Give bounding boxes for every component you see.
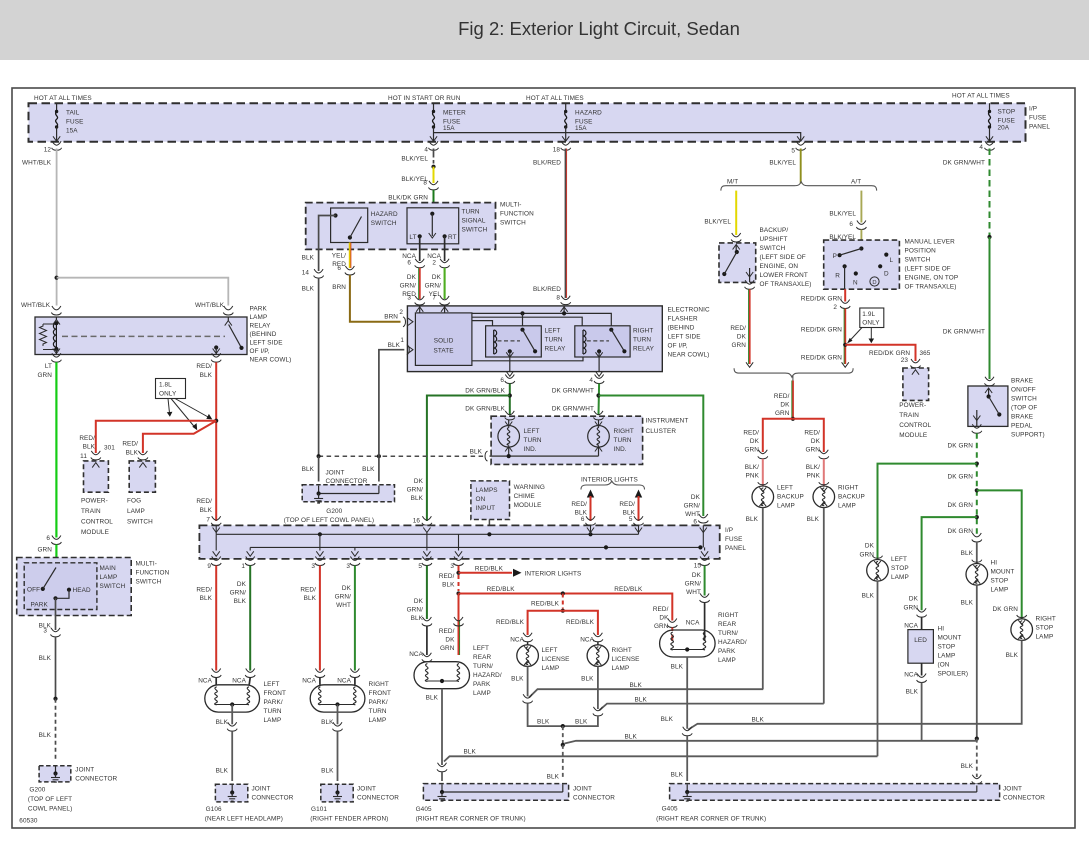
svg-text:LAMP: LAMP [127, 508, 145, 515]
wire BLK spoiler down to bus L4 [921, 683, 923, 741]
svg-text:BLK: BLK [961, 763, 974, 770]
wire BLK/YEL A/T branch [860, 191, 862, 223]
svg-text:DK: DK [445, 637, 455, 644]
SECTION: bottom lamps [196, 566, 1045, 823]
svg-text:BLK: BLK [906, 689, 919, 696]
svg-text:JOINT: JOINT [1003, 786, 1022, 793]
wire RED/DK GRN right backup branch [793, 419, 824, 452]
svg-text:BLK/YEL: BLK/YEL [401, 156, 428, 163]
wire DK GRN/BLK pin1 to left front lamp [249, 566, 251, 671]
svg-text:CONNECTOR: CONNECTOR [326, 478, 368, 485]
svg-text:RED/: RED/ [439, 573, 455, 580]
svg-text:BLK: BLK [635, 697, 648, 704]
svg-text:RED/: RED/ [653, 606, 669, 613]
svg-text:RIGHT: RIGHT [718, 612, 738, 619]
svg-text:RED/: RED/ [619, 501, 635, 508]
svg-text:G405: G405 [416, 806, 432, 813]
svg-text:LEFT: LEFT [473, 645, 489, 652]
svg-text:INTERIOR LIGHTS: INTERIOR LIGHTS [581, 477, 638, 484]
wire DK GRN/WHT branch to I/P pin6 [599, 396, 704, 517]
wire RT turn NCA [444, 236, 446, 261]
svg-text:TURN/: TURN/ [473, 663, 493, 670]
tail fuse [56, 103, 58, 112]
wire RED/BLK pin3 interior lights feed [458, 566, 460, 573]
svg-text:PARK: PARK [31, 602, 49, 609]
svg-text:4: 4 [589, 377, 593, 384]
svg-text:HAZARD: HAZARD [575, 110, 602, 117]
svg-text:REAR: REAR [718, 621, 736, 628]
LED hi mount stop lamp (spoiler) [908, 630, 934, 664]
svg-text:BLK/RED: BLK/RED [533, 286, 561, 293]
svg-text:LICENSE: LICENSE [612, 656, 640, 663]
svg-text:BLK: BLK [575, 719, 588, 726]
svg-text:MODULE: MODULE [899, 432, 927, 439]
svg-text:DK: DK [691, 494, 701, 501]
svg-text:RED/BLK: RED/BLK [614, 586, 643, 593]
svg-text:8: 8 [423, 180, 427, 187]
flasher left pin arrows 2,1 [408, 318, 413, 325]
svg-text:GRN/: GRN/ [335, 594, 352, 601]
svg-text:G200: G200 [29, 787, 45, 794]
svg-text:BACKUP: BACKUP [838, 494, 865, 501]
svg-text:BLK: BLK [630, 682, 643, 689]
svg-text:14: 14 [302, 270, 310, 277]
title bar [0, 0, 1089, 60]
svg-text:LAMP: LAMP [1036, 634, 1054, 641]
svg-text:GRN/: GRN/ [230, 590, 247, 597]
bottom exit arrows [213, 551, 220, 556]
svg-text:WHT: WHT [685, 511, 700, 518]
svg-text:BLK/DK GRN: BLK/DK GRN [388, 195, 428, 202]
svg-text:SOLID: SOLID [434, 338, 454, 345]
svg-text:OFF: OFF [27, 587, 40, 594]
svg-text:DK: DK [414, 478, 424, 485]
svg-text:LED: LED [914, 637, 927, 644]
svg-text:LOWER FRONT: LOWER FRONT [760, 272, 808, 279]
wire BLK left backup down [762, 508, 764, 690]
wire RED/BLK to PCM 301 [96, 421, 216, 453]
meter fuse [433, 103, 435, 112]
wire RED/BLK pin9 to left front lamp [215, 566, 217, 671]
BLK bus L1 from left license [529, 689, 763, 697]
svg-text:BLK: BLK [411, 615, 424, 622]
svg-text:LAMP: LAMP [473, 690, 491, 697]
left rear turn/hazard/park lamp [414, 662, 470, 689]
svg-text:NCA: NCA [904, 672, 918, 679]
wire BLK/PNK left [762, 459, 764, 487]
svg-text:POWER-: POWER- [81, 498, 108, 505]
svg-text:DK GRN: DK GRN [948, 443, 974, 450]
wire RED/DK GRN from upshift [749, 289, 751, 364]
svg-text:JOINT: JOINT [573, 786, 592, 793]
svg-text:RELAY: RELAY [250, 323, 272, 330]
multi-function switch box [306, 203, 496, 250]
svg-text:RED/: RED/ [300, 587, 316, 594]
svg-text:FRONT: FRONT [369, 690, 392, 697]
svg-text:(LEFT SIDE OF: (LEFT SIDE OF [905, 266, 951, 273]
flasher bottom pins 6,4 [506, 371, 513, 376]
svg-text:PNK: PNK [746, 473, 760, 480]
svg-text:BLK: BLK [362, 466, 375, 473]
svg-text:BLK: BLK [862, 593, 875, 600]
svg-text:RIGHT: RIGHT [614, 428, 634, 435]
internal bus meter fuse to pin 5 [434, 133, 801, 141]
park lamp relay [35, 317, 247, 355]
svg-text:RED/: RED/ [196, 498, 212, 505]
svg-text:BLK: BLK [39, 655, 52, 662]
svg-text:LAMP: LAMP [718, 657, 736, 664]
svg-text:G101: G101 [311, 806, 327, 813]
svg-text:RELAY: RELAY [633, 346, 655, 353]
wire DK GRN/BLK pin5 to left rear lamp [426, 566, 428, 620]
svg-text:MAIN: MAIN [100, 565, 117, 572]
svg-text:TURN: TURN [524, 437, 542, 444]
svg-text:CLUSTER: CLUSTER [646, 428, 677, 435]
svg-text:JOINT: JOINT [326, 470, 345, 477]
svg-text:Fig 2: Exterior Light Circuit,: Fig 2: Exterior Light Circuit, Sedan [458, 18, 740, 39]
svg-text:BACKUP/: BACKUP/ [760, 227, 789, 234]
svg-text:(TOP OF LEFT: (TOP OF LEFT [28, 796, 72, 803]
joint connector G200 (cowl top) [302, 485, 394, 502]
svg-text:OF TRANSAXLE): OF TRANSAXLE) [760, 281, 812, 288]
svg-text:DK: DK [750, 438, 760, 445]
powertrain control module (right) [903, 368, 929, 400]
svg-text:CONTROL: CONTROL [899, 422, 931, 429]
svg-text:NEAR COWL): NEAR COWL) [668, 352, 710, 359]
svg-text:N: N [853, 280, 858, 287]
wire YEL/RED hazard down [349, 243, 351, 269]
svg-text:DK GRN: DK GRN [948, 474, 974, 481]
svg-text:G200: G200 [326, 508, 342, 515]
svg-text:DK: DK [780, 402, 790, 409]
lamps on input box [471, 481, 510, 520]
svg-text:LAMP: LAMP [777, 503, 795, 510]
svg-text:LEFT: LEFT [891, 556, 907, 563]
SECTION: left side [17, 306, 292, 825]
svg-text:LAMP: LAMP [542, 665, 560, 672]
svg-text:8: 8 [556, 295, 560, 302]
svg-text:PARK: PARK [473, 681, 491, 688]
svg-text:GRN/: GRN/ [407, 487, 424, 494]
wire LT GRN relay to main lamp switch [55, 362, 57, 537]
BLK bus L5 [444, 756, 878, 761]
wire BLK/DK GRN [433, 190, 435, 208]
svg-text:LAMPS: LAMPS [476, 487, 498, 494]
svg-text:FUSE: FUSE [725, 536, 742, 543]
svg-text:GRN: GRN [805, 447, 820, 454]
svg-text:RIGHT: RIGHT [1036, 616, 1056, 623]
svg-text:(ON: (ON [938, 662, 950, 669]
svg-text:FOG: FOG [127, 498, 141, 505]
svg-text:DK GRN/BLK: DK GRN/BLK [465, 406, 505, 413]
svg-text:BLK: BLK [304, 595, 317, 602]
svg-text:BRN: BRN [332, 284, 346, 291]
SECTION: right top [704, 191, 958, 704]
svg-text:CHIME: CHIME [514, 493, 535, 500]
svg-text:ELECTRONIC: ELECTRONIC [668, 307, 710, 314]
svg-text:HEAD: HEAD [73, 587, 91, 594]
svg-text:DK GRN/WHT: DK GRN/WHT [552, 406, 594, 413]
svg-text:GRN: GRN [859, 552, 874, 559]
svg-text:GRN: GRN [37, 372, 52, 379]
wire BLK hi mount stop lamp body [976, 542, 978, 564]
svg-text:BLK/: BLK/ [806, 464, 820, 471]
svg-text:LAMP: LAMP [891, 574, 909, 581]
svg-text:OF TRANSAXLE): OF TRANSAXLE) [905, 284, 957, 291]
svg-text:LAMP: LAMP [100, 574, 118, 581]
relay switch [225, 321, 232, 326]
svg-text:ENGINE, ON TOP: ENGINE, ON TOP [905, 275, 959, 282]
svg-text:LEFT: LEFT [524, 428, 540, 435]
svg-text:WHT: WHT [686, 589, 701, 596]
svg-text:BLK/YEL: BLK/YEL [829, 211, 856, 218]
svg-text:RED/DK GRN: RED/DK GRN [869, 350, 910, 357]
svg-text:GRN: GRN [654, 623, 669, 630]
svg-text:POWER-: POWER- [899, 402, 926, 409]
svg-text:DK GRN/WHT: DK GRN/WHT [943, 329, 985, 336]
svg-text:RED/: RED/ [439, 628, 455, 635]
svg-text:BLK/YEL: BLK/YEL [769, 160, 796, 167]
svg-text:STATE: STATE [434, 348, 454, 355]
svg-text:GRN: GRN [440, 645, 455, 652]
I/P fuse panel (lower bus) [199, 525, 719, 559]
svg-text:GRN: GRN [731, 342, 746, 349]
svg-text:M/T: M/T [727, 179, 738, 186]
svg-text:RED/: RED/ [196, 587, 212, 594]
svg-text:CONNECTOR: CONNECTOR [1003, 795, 1045, 802]
svg-text:NCA: NCA [580, 637, 594, 644]
wire DK GRN branch to spoiler LED [922, 517, 977, 610]
wire DK GRN branch to right stop lamp [977, 490, 1022, 619]
svg-text:D: D [884, 271, 889, 278]
left license lamp [517, 645, 539, 667]
wire RED/BLK license drop [562, 594, 564, 609]
svg-text:BLK: BLK [216, 719, 229, 726]
svg-text:4: 4 [979, 144, 983, 151]
backup/upshift switch [719, 243, 756, 283]
svg-text:HOT AT ALL TIMES: HOT AT ALL TIMES [526, 95, 584, 102]
svg-text:6: 6 [337, 265, 341, 272]
svg-text:BLK: BLK [126, 450, 139, 457]
svg-text:BLK: BLK [752, 717, 765, 724]
right rear turn/hazard/park lamp [660, 630, 716, 657]
svg-text:RED/DK GRN: RED/DK GRN [801, 327, 842, 334]
svg-text:DK GRN/WHT: DK GRN/WHT [943, 160, 985, 167]
svg-text:D: D [872, 280, 876, 286]
svg-text:BLK/: BLK/ [745, 464, 759, 471]
svg-text:DK: DK [407, 274, 417, 281]
svg-text:BLK: BLK [200, 595, 213, 602]
svg-text:IND.: IND. [614, 446, 627, 453]
svg-text:BLK: BLK [746, 516, 759, 523]
svg-text:15A: 15A [575, 125, 587, 132]
svg-text:2: 2 [833, 304, 837, 311]
svg-text:R: R [835, 273, 840, 280]
svg-text:BRAKE: BRAKE [1011, 378, 1033, 385]
svg-text:LT: LT [45, 363, 52, 370]
svg-text:I/P: I/P [725, 527, 733, 534]
hi mount stop lamp [972, 560, 982, 563]
wire RED/DK GRN left backup branch [763, 419, 793, 452]
svg-text:(NEAR LEFT HEADLAMP): (NEAR LEFT HEADLAMP) [205, 816, 283, 823]
1.9L only box [860, 308, 884, 328]
turn signal switch [407, 208, 459, 244]
svg-text:FUNCTION: FUNCTION [136, 570, 170, 577]
svg-text:METER: METER [443, 110, 466, 117]
cluster ground bus [490, 455, 599, 457]
internal bus lines [216, 533, 638, 535]
wire RED/DK GRN merged [792, 381, 794, 419]
svg-text:A/T: A/T [851, 179, 861, 186]
svg-text:MOUNT: MOUNT [991, 569, 1015, 576]
merge brace to backup lamps [734, 368, 853, 377]
svg-text:MOUNT: MOUNT [938, 635, 962, 642]
svg-text:DK: DK [659, 615, 669, 622]
svg-text:BLK: BLK [321, 719, 334, 726]
svg-text:TRAIN: TRAIN [81, 508, 101, 515]
wire BLK left stop down to bus [877, 581, 879, 756]
svg-text:LEFT: LEFT [542, 647, 558, 654]
svg-text:G405: G405 [662, 806, 678, 813]
svg-text:DK: DK [865, 543, 875, 550]
svg-text:LAMP: LAMP [991, 587, 1009, 594]
svg-text:TURN: TURN [264, 708, 282, 715]
svg-text:FLASHER: FLASHER [668, 316, 698, 323]
main lamp switch outer box [17, 558, 132, 616]
brace M/T A/T [721, 182, 877, 191]
svg-text:PARK/: PARK/ [369, 699, 388, 706]
hazard fuse [565, 103, 567, 112]
svg-text:SPOILER): SPOILER) [938, 671, 969, 678]
svg-text:RELAY: RELAY [545, 346, 567, 353]
svg-text:RED/: RED/ [571, 501, 587, 508]
svg-text:6: 6 [849, 221, 853, 228]
svg-text:OF I/P,: OF I/P, [668, 343, 688, 350]
svg-text:1.8L: 1.8L [159, 382, 172, 389]
svg-text:BRAKE: BRAKE [1011, 414, 1033, 421]
svg-text:BLK: BLK [234, 598, 247, 605]
wire BLK/YEL to M/T A/T brace [800, 149, 802, 184]
svg-text:SWITCH: SWITCH [500, 220, 526, 227]
svg-text:12: 12 [44, 147, 52, 154]
right backup lamp [819, 482, 829, 485]
wire WHT/BLK branch to relay right [57, 278, 229, 306]
right front park/turn lamp [310, 685, 365, 712]
svg-text:DK: DK [737, 334, 747, 341]
svg-text:SWITCH: SWITCH [371, 220, 397, 227]
svg-text:DK: DK [811, 438, 821, 445]
svg-text:BLK: BLK [470, 449, 483, 456]
svg-text:WHT: WHT [336, 602, 351, 609]
electronic flasher box [407, 306, 662, 372]
svg-text:CONNECTOR: CONNECTOR [573, 795, 615, 802]
svg-text:GRN/: GRN/ [425, 283, 442, 290]
wire RED/BLK from relay [215, 362, 217, 521]
svg-text:BLK: BLK [671, 772, 684, 779]
svg-text:SUPPORT): SUPPORT) [1011, 432, 1045, 439]
joint connector G101 [321, 784, 353, 802]
svg-text:BLK: BLK [442, 582, 455, 589]
left backup lamp [758, 482, 768, 485]
svg-text:STOP: STOP [998, 109, 1016, 116]
svg-text:BLK/YEL: BLK/YEL [704, 219, 731, 226]
svg-text:RT: RT [448, 234, 457, 241]
svg-text:15A: 15A [443, 125, 455, 132]
wire BLK dashed cluster to joint connector [319, 455, 484, 457]
svg-text:PARK: PARK [718, 648, 736, 655]
svg-text:ONLY: ONLY [862, 320, 880, 327]
svg-text:JOINT: JOINT [357, 786, 376, 793]
wire BLK left rear down to G405 [441, 689, 443, 765]
brake on/off switch [985, 377, 995, 386]
svg-text:UPSHIFT: UPSHIFT [760, 236, 788, 243]
wire RED/DK GRN right rear left coil [671, 635, 673, 642]
top entry arrows [215, 525, 217, 534]
svg-text:RED/: RED/ [730, 325, 746, 332]
svg-text:TURN: TURN [633, 337, 651, 344]
svg-text:RIGHT: RIGHT [612, 647, 632, 654]
wire DK GRN/WHT pin3 to right front lamp [354, 566, 356, 671]
SECTION: multifunction switch [302, 202, 534, 457]
svg-text:PARK/: PARK/ [264, 699, 283, 706]
svg-text:YEL/: YEL/ [332, 253, 346, 260]
wire DK GRN/WHT from stop fuse [989, 149, 991, 238]
svg-text:7: 7 [206, 517, 210, 524]
svg-text:REAR: REAR [473, 654, 491, 661]
svg-text:BLK: BLK [661, 716, 674, 723]
svg-text:3: 3 [43, 628, 47, 635]
svg-text:JOINT: JOINT [252, 786, 271, 793]
svg-text:4: 4 [424, 147, 428, 154]
svg-text:LT: LT [409, 234, 416, 241]
svg-text:CONNECTOR: CONNECTOR [357, 795, 399, 802]
svg-text:BACKUP: BACKUP [777, 494, 804, 501]
svg-text:6: 6 [693, 519, 697, 526]
svg-text:INTERIOR LIGHTS: INTERIOR LIGHTS [525, 571, 582, 578]
svg-text:TURN: TURN [545, 337, 563, 344]
svg-text:RED/BLK: RED/BLK [487, 586, 516, 593]
svg-text:DK: DK [237, 581, 247, 588]
SECTION: right column [688, 377, 1056, 791]
wire BLK hi mount down [976, 585, 978, 739]
svg-text:HI: HI [991, 560, 998, 567]
wire DK GRN/RED to flasher pin 3 [419, 268, 421, 299]
svg-text:3: 3 [407, 295, 411, 302]
svg-text:BLK: BLK [671, 664, 684, 671]
svg-text:RED/DK GRN: RED/DK GRN [801, 296, 842, 303]
svg-text:PNK: PNK [807, 473, 821, 480]
wire lamps-on to fuse panel [488, 520, 490, 533]
svg-text:TRAIN: TRAIN [899, 412, 919, 419]
joint connector G106 [215, 784, 247, 802]
fog lamp switch [129, 461, 155, 492]
svg-text:RED/BLK: RED/BLK [566, 619, 595, 626]
svg-text:RED/: RED/ [79, 435, 95, 442]
svg-text:L: L [890, 257, 894, 264]
svg-text:LAMP: LAMP [838, 503, 856, 510]
svg-text:LEFT: LEFT [777, 485, 793, 492]
wire RED/BLK pin3 to right front lamp [319, 566, 321, 671]
powertrain control module (left) [84, 461, 109, 492]
svg-text:LEFT: LEFT [545, 328, 561, 335]
wire BLK/RED hazard fuse to flasher [565, 149, 567, 299]
svg-text:60530: 60530 [19, 818, 38, 825]
svg-text:NCA: NCA [409, 651, 423, 658]
svg-text:RED/: RED/ [774, 393, 790, 400]
instrument cluster box [491, 416, 642, 464]
flasher top pin arrows 3,7,8 [419, 306, 421, 313]
svg-text:DK GRN/BLK: DK GRN/BLK [465, 388, 505, 395]
